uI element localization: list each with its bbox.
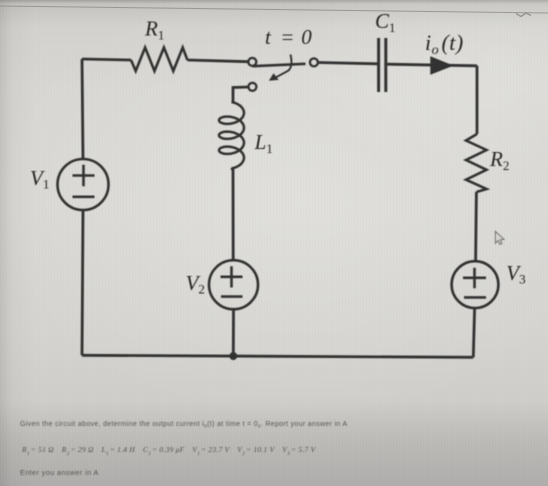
current arrow io(t) <box>430 56 453 75</box>
svg-text:V1: V1 <box>30 166 49 192</box>
svg-text:R1 = 51 Ω R2 = 29 Ω L1 = 1.4 H: R1 = 51 Ω R2 = 29 Ω L1 = 1.4 H C1 = 0.39… <box>21 445 317 457</box>
wire R2 to V3 <box>474 192 478 261</box>
switch t=0: right contact <box>310 58 318 66</box>
junction node <box>229 352 237 360</box>
inductor L1 <box>219 102 244 169</box>
wire L1 to V2 <box>232 168 234 260</box>
wire lower contact stub to L1 <box>233 87 249 103</box>
voltage source V1 <box>58 159 109 210</box>
wire V2 to junction <box>232 309 235 356</box>
wire bottom <box>82 355 473 357</box>
svg-text:Enter you answer in A: Enter you answer in A <box>20 468 99 477</box>
svg-text:L1: L1 <box>254 130 273 156</box>
svg-text:Given the circuit above, deter: Given the circuit above, determine the o… <box>20 421 347 430</box>
svg-text:R1: R1 <box>144 17 164 43</box>
wire switch to C1 <box>318 63 378 64</box>
wire C1 to top-right corner <box>387 64 477 66</box>
svg-text:t = 0: t = 0 <box>265 25 313 49</box>
wire V3 to bottom wire <box>473 308 474 357</box>
svg-text:V2: V2 <box>186 271 205 297</box>
photo top edge line <box>0 6 548 13</box>
switch motion arrow <box>269 55 292 81</box>
resistor R2 <box>466 134 487 192</box>
wire left vertical (top-left corner to V1) <box>82 59 83 159</box>
svg-text:R2: R2 <box>489 147 509 173</box>
voltage source V2 <box>209 260 258 309</box>
svg-text:C1: C1 <box>375 9 396 35</box>
switch t=0: lower contact <box>248 83 256 91</box>
wire top (corner to R1) <box>82 59 131 60</box>
svg-text:V3: V3 <box>506 261 525 287</box>
switch blade <box>253 64 306 66</box>
svg-text:io (t): io (t) <box>425 30 464 58</box>
mouse cursor <box>495 232 504 245</box>
wire V1 to bottom-left corner <box>82 210 83 355</box>
wire top-right corner down to R2 <box>476 66 479 134</box>
voltage source V3 <box>452 261 499 308</box>
pen mark top right <box>516 13 531 17</box>
capacitor C1 <box>379 38 386 92</box>
switch t=0: left contact <box>248 58 256 66</box>
resistor R1 <box>131 48 187 72</box>
wire R1 to switch <box>187 60 248 62</box>
